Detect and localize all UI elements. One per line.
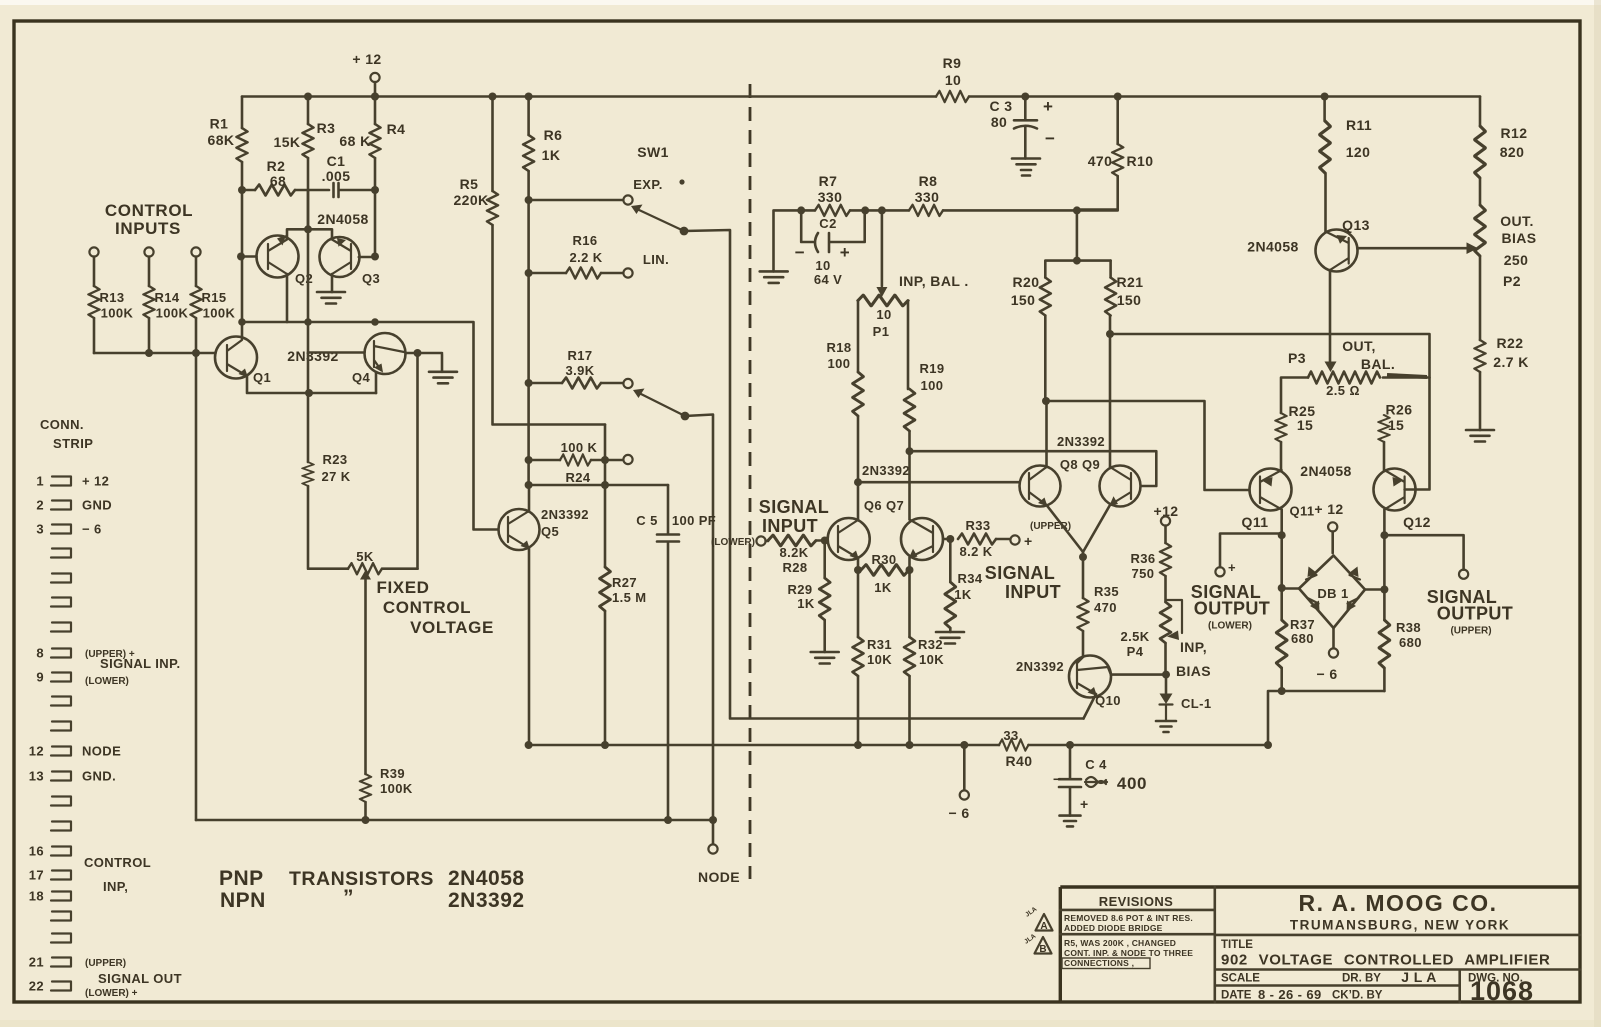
conn strip terminal 10 xyxy=(51,697,71,706)
svg-text:− 6: − 6 xyxy=(1316,666,1337,682)
wire: Q1 Q4 emitter bus xyxy=(247,376,376,393)
svg-text:GND.: GND. xyxy=(82,769,116,784)
svg-text:C1: C1 xyxy=(327,153,346,169)
resistor R19 100 xyxy=(904,389,915,431)
svg-text:680: 680 xyxy=(1291,631,1314,646)
svg-text:R22: R22 xyxy=(1497,335,1524,351)
ground below Q3 xyxy=(331,274,334,292)
svg-text:+ 12: + 12 xyxy=(82,474,109,489)
svg-text:1: 1 xyxy=(36,474,44,489)
diode CL-1 xyxy=(1165,675,1168,693)
svg-text:C 4: C 4 xyxy=(1085,757,1107,772)
resistor R8 330 xyxy=(909,205,943,216)
resistor R18 100 xyxy=(853,372,864,416)
svg-text:27 K: 27 K xyxy=(321,469,350,484)
svg-text:10: 10 xyxy=(876,307,891,322)
svg-text:2: 2 xyxy=(36,498,44,513)
svg-text:DB 1: DB 1 xyxy=(1317,586,1348,601)
svg-text:−: − xyxy=(1053,771,1062,787)
svg-text:8.2 K: 8.2 K xyxy=(959,544,992,559)
resistor R30 1K xyxy=(854,566,862,574)
transistor Q5 xyxy=(499,509,540,550)
svg-text:SW1: SW1 xyxy=(637,144,669,160)
svg-text:2.5K: 2.5K xyxy=(1120,629,1149,644)
svg-text:R37: R37 xyxy=(1290,617,1315,632)
terminal signal output lower xyxy=(1215,567,1224,576)
svg-text:INPUT: INPUT xyxy=(762,516,818,536)
svg-text:TITLE: TITLE xyxy=(1221,939,1253,951)
terminal -6 bridge xyxy=(1332,628,1335,649)
wire: Q6 collector node to Q8 base xyxy=(858,481,1019,484)
resistor R15 100K xyxy=(195,257,198,354)
svg-text:15: 15 xyxy=(1388,417,1404,433)
svg-text:10K: 10K xyxy=(867,652,892,667)
svg-text:− 6: − 6 xyxy=(82,522,102,537)
terminal NODE xyxy=(709,816,717,824)
svg-text:R30: R30 xyxy=(871,552,896,567)
svg-text:+ 12: + 12 xyxy=(352,51,381,67)
svg-text:R36: R36 xyxy=(1130,551,1155,566)
svg-text:BIAS: BIAS xyxy=(1501,230,1536,246)
conn strip terminal 14 xyxy=(51,797,71,806)
wire: R8 node down to R20 R21 xyxy=(1073,206,1081,214)
resistor R13 100K xyxy=(93,257,96,354)
svg-text:R4: R4 xyxy=(387,121,406,137)
svg-text:P1: P1 xyxy=(873,324,890,339)
transistor Q3 xyxy=(320,237,360,277)
svg-text:DATE: DATE xyxy=(1221,990,1252,1002)
svg-text:Q12: Q12 xyxy=(1403,514,1431,530)
resistor R31 10K xyxy=(857,570,860,745)
svg-text:R5, WAS 200K , CHANGED: R5, WAS 200K , CHANGED xyxy=(1064,938,1176,948)
resistor R21 150 xyxy=(1109,261,1112,334)
svg-text:TRUMANSBURG, NEW YORK: TRUMANSBURG, NEW YORK xyxy=(1290,918,1510,933)
resistor R10 470 xyxy=(1114,93,1122,101)
svg-text:470: 470 xyxy=(1094,600,1117,615)
svg-text:STRIP: STRIP xyxy=(53,436,93,451)
svg-text:Q3: Q3 xyxy=(362,271,380,286)
resistor R26 15 xyxy=(1379,415,1390,442)
svg-text:SIGNAL OUT: SIGNAL OUT xyxy=(98,971,182,986)
svg-text:R11: R11 xyxy=(1346,117,1372,133)
transistor Q11 xyxy=(1250,469,1292,511)
svg-text:GND: GND xyxy=(82,498,112,513)
resistor R1 68K xyxy=(241,97,244,191)
conn strip terminal 20 xyxy=(51,934,71,943)
svg-text:1068: 1068 xyxy=(1470,976,1534,1006)
transistor Q2 xyxy=(257,236,299,278)
svg-text:REMOVED 8.6 POT & INT RES.: REMOVED 8.6 POT & INT RES. xyxy=(1064,913,1193,923)
ground left of C2 xyxy=(774,210,802,271)
svg-text:SIGNAL: SIGNAL xyxy=(985,563,1055,583)
title block frame xyxy=(1060,887,1580,1002)
svg-text:C 5: C 5 xyxy=(636,513,657,528)
svg-text:+: + xyxy=(1080,796,1089,812)
svg-text:P2: P2 xyxy=(1503,273,1521,289)
svg-text:3.9K: 3.9K xyxy=(565,363,594,378)
svg-text:SCALE: SCALE xyxy=(1221,973,1260,985)
svg-text:2N4058: 2N4058 xyxy=(1247,239,1298,255)
svg-text:100K: 100K xyxy=(380,781,413,796)
svg-text:EXP.: EXP. xyxy=(633,177,663,192)
svg-text:2N3392: 2N3392 xyxy=(541,507,589,522)
svg-text:INP,: INP, xyxy=(103,879,128,894)
svg-text:R9: R9 xyxy=(943,55,962,71)
svg-text:100 PF: 100 PF xyxy=(672,513,716,528)
svg-text:(UPPER): (UPPER) xyxy=(85,958,126,969)
ground below C4 xyxy=(1060,816,1081,827)
resistor R40 33 xyxy=(999,740,1028,751)
transistor Q8 xyxy=(1020,466,1061,507)
svg-text:−: − xyxy=(1045,129,1056,148)
svg-text:NODE: NODE xyxy=(698,869,740,885)
transistor Q12 xyxy=(1374,469,1416,511)
resistor R9 10 xyxy=(936,91,969,102)
svg-text:100K: 100K xyxy=(101,306,134,321)
svg-text:B: B xyxy=(1039,944,1046,955)
svg-text:R3: R3 xyxy=(317,120,336,136)
svg-text:+: + xyxy=(840,243,851,262)
svg-text:P4: P4 xyxy=(1127,644,1144,659)
wire: SW1 lower arm down to NODE bus xyxy=(685,415,713,821)
transistor Q6 xyxy=(828,518,870,560)
ground below R34 xyxy=(936,632,964,644)
svg-text:R31: R31 xyxy=(867,637,892,652)
svg-text:C 3: C 3 xyxy=(990,98,1013,114)
svg-text:Q6 Q7: Q6 Q7 xyxy=(864,498,904,513)
svg-text:68: 68 xyxy=(270,173,286,189)
svg-text:R2: R2 xyxy=(267,158,286,174)
terminal signal output upper xyxy=(1459,570,1468,579)
svg-text:22: 22 xyxy=(29,979,44,994)
resistor R4 68K xyxy=(371,93,379,101)
resistor R38 680 xyxy=(1383,535,1386,691)
svg-text:8 - 26 - 69: 8 - 26 - 69 xyxy=(1258,987,1322,1002)
svg-text:SIGNAL INP.: SIGNAL INP. xyxy=(100,656,181,671)
resistor R23 27K xyxy=(308,229,348,568)
svg-text:VOLTAGE: VOLTAGE xyxy=(410,618,494,637)
svg-text:400: 400 xyxy=(1117,774,1147,793)
resistor R11 120 xyxy=(1321,93,1329,101)
resistor R36 750 xyxy=(1160,543,1171,576)
svg-text:902 VOLTAGE CONTROLLED AMPL: 902 VOLTAGE CONTROLLED AMPLIFIER xyxy=(1221,952,1550,969)
svg-text:.005: .005 xyxy=(322,168,351,184)
resistor R2 68 xyxy=(238,186,246,194)
svg-text:2N3392: 2N3392 xyxy=(1016,659,1064,674)
ground right of Q4 xyxy=(441,355,444,372)
svg-text:R6: R6 xyxy=(544,127,563,143)
svg-text:R27: R27 xyxy=(612,575,637,590)
svg-text:− 6: − 6 xyxy=(948,805,969,821)
transistor Q9 xyxy=(1100,466,1141,507)
wire: loop from Q1 collector to Q5 base xyxy=(242,322,498,530)
svg-text:CONTROL: CONTROL xyxy=(383,598,471,617)
svg-text:Q8 Q9: Q8 Q9 xyxy=(1060,457,1100,472)
svg-text:(LOWER) +: (LOWER) + xyxy=(85,988,138,999)
wire: Q5 collector row to C5 xyxy=(525,481,533,489)
capacitor C2 10 64V xyxy=(801,210,865,252)
svg-text:10: 10 xyxy=(815,258,830,273)
svg-text:R28: R28 xyxy=(782,560,807,575)
svg-text:330: 330 xyxy=(818,189,843,205)
svg-text:33: 33 xyxy=(1003,728,1018,743)
svg-text:R38: R38 xyxy=(1396,620,1421,635)
svg-text:R1: R1 xyxy=(210,116,229,132)
svg-text:2.5 Ω: 2.5 Ω xyxy=(1326,383,1360,398)
svg-text:FIXED: FIXED xyxy=(376,578,429,597)
conn strip terminal 11 xyxy=(51,722,71,731)
svg-text:DR. BY: DR. BY xyxy=(1342,973,1381,985)
svg-text:R21: R21 xyxy=(1117,274,1144,290)
revision marker triangle B xyxy=(1035,937,1052,954)
svg-text:OUTPUT: OUTPUT xyxy=(1437,604,1513,624)
svg-text:A: A xyxy=(1040,921,1047,932)
svg-text:(UPPER): (UPPER) xyxy=(1450,626,1491,637)
svg-text:R40: R40 xyxy=(1006,753,1033,769)
transistor Q13 xyxy=(1316,230,1358,272)
svg-text:Q2: Q2 xyxy=(295,271,313,286)
svg-text:R. A. MOOG CO.: R. A. MOOG CO. xyxy=(1298,890,1497,916)
svg-text:OUT,: OUT, xyxy=(1342,338,1376,354)
svg-text:INPUTS: INPUTS xyxy=(115,219,181,238)
svg-text:2N4058: 2N4058 xyxy=(448,867,525,890)
svg-text:2.2 K: 2.2 K xyxy=(569,250,602,265)
terminal -6 mid xyxy=(963,745,966,790)
svg-text:INP, BAL .: INP, BAL . xyxy=(899,273,969,289)
svg-text:2N3392: 2N3392 xyxy=(862,463,910,478)
svg-text:CONTROL: CONTROL xyxy=(84,855,151,870)
svg-text:R16: R16 xyxy=(572,233,597,248)
resistor R16 2.2K xyxy=(525,269,533,277)
conn strip terminal 15 xyxy=(51,822,71,831)
svg-text:9: 9 xyxy=(36,670,44,685)
svg-text:CONNECTIONS ,: CONNECTIONS , xyxy=(1064,958,1134,968)
svg-text:CK’D. BY: CK’D. BY xyxy=(1332,990,1383,1002)
svg-text:10: 10 xyxy=(945,72,961,88)
resistor R37 680 xyxy=(1280,535,1283,691)
svg-text:68 K: 68 K xyxy=(339,133,370,149)
svg-text:R26: R26 xyxy=(1386,402,1413,418)
svg-text:−: − xyxy=(795,243,806,262)
svg-text:R19: R19 xyxy=(919,361,944,376)
svg-text:16: 16 xyxy=(29,844,44,859)
resistor R5 220K xyxy=(489,93,497,101)
svg-text:INP,: INP, xyxy=(1180,639,1207,655)
svg-text:Q13: Q13 xyxy=(1342,217,1370,233)
svg-text:Q10: Q10 xyxy=(1095,693,1121,708)
capacitor C5 100PF xyxy=(657,485,679,820)
svg-text:12: 12 xyxy=(29,744,44,759)
svg-text:Q11: Q11 xyxy=(1289,504,1314,519)
svg-text:LIN.: LIN. xyxy=(643,252,669,267)
svg-text:Q1: Q1 xyxy=(253,370,271,385)
svg-text:2N3392: 2N3392 xyxy=(1057,434,1105,449)
diode bridge DB1 xyxy=(1299,556,1365,629)
svg-text:J L A: J L A xyxy=(1401,969,1436,985)
svg-text:OUT.: OUT. xyxy=(1500,213,1534,229)
svg-text:R15: R15 xyxy=(201,290,226,305)
wire: Q4 collector column down to 5K pot xyxy=(414,349,422,357)
resistor R22 2.7K xyxy=(1475,340,1486,372)
svg-text:8: 8 xyxy=(36,646,44,661)
wire: Q8 collector node to Q11 base xyxy=(1046,401,1250,490)
svg-text:100K: 100K xyxy=(203,306,236,321)
svg-text:R32: R32 xyxy=(918,637,943,652)
wire: +12 top power bus xyxy=(242,95,1480,98)
svg-text:10K: 10K xyxy=(919,652,944,667)
resistor R20 150 xyxy=(1045,261,1110,401)
svg-text:64 V: 64 V xyxy=(814,272,842,287)
svg-text:ADDED DIODE BRIDGE: ADDED DIODE BRIDGE xyxy=(1064,923,1163,933)
svg-text:R24: R24 xyxy=(565,470,590,485)
svg-text:”: ” xyxy=(343,886,354,909)
svg-text:R39: R39 xyxy=(380,766,405,781)
svg-text:R5: R5 xyxy=(460,176,479,192)
svg-text:(LOWER): (LOWER) xyxy=(711,537,755,548)
transistor Q7 xyxy=(901,518,943,560)
svg-text:TRANSISTORS: TRANSISTORS xyxy=(289,868,434,890)
svg-text:2N4058: 2N4058 xyxy=(1300,463,1351,479)
wire: Q9 collector node to Q12 base xyxy=(1110,334,1430,490)
svg-text:R10: R10 xyxy=(1127,153,1154,169)
svg-text:BIAS: BIAS xyxy=(1176,663,1211,679)
svg-text:INPUT: INPUT xyxy=(1005,582,1061,602)
svg-text:R13: R13 xyxy=(99,290,124,305)
svg-text:CONN.: CONN. xyxy=(40,417,84,432)
svg-text:R8: R8 xyxy=(919,173,938,189)
svg-text:R33: R33 xyxy=(965,518,990,533)
resistor R12 820 xyxy=(1479,97,1482,127)
svg-text:R34: R34 xyxy=(957,571,982,586)
resistor R7 330 xyxy=(797,206,805,214)
resistor R28 8.2K xyxy=(766,540,768,543)
svg-text:+ 12: + 12 xyxy=(1314,501,1343,517)
svg-text:+: + xyxy=(1043,97,1054,116)
resistor R25 15 xyxy=(1276,413,1287,442)
resistor R24 100K xyxy=(525,456,533,464)
wire: bridge left to Q11 collector xyxy=(1282,587,1299,590)
wire: bridge right to Q12 collector xyxy=(1365,588,1384,591)
svg-text:R12: R12 xyxy=(1501,125,1528,141)
resistor R35 470 xyxy=(1078,598,1089,631)
potentiometer 5K fixed control voltage xyxy=(348,563,382,574)
svg-text:1K: 1K xyxy=(954,587,972,602)
svg-text:Q5: Q5 xyxy=(541,524,559,539)
svg-text:NPN: NPN xyxy=(220,889,266,912)
svg-text:220K: 220K xyxy=(453,192,488,208)
resistor R14 100K xyxy=(148,257,151,354)
conn strip terminal 4 xyxy=(51,549,71,558)
svg-text:100 K: 100 K xyxy=(561,440,598,455)
wire: Q2 Q3 common emitter bar xyxy=(287,190,332,239)
svg-text:68K: 68K xyxy=(208,132,235,148)
svg-text:250: 250 xyxy=(1504,252,1529,268)
revision marker triangle A xyxy=(1036,914,1053,931)
svg-text:R23: R23 xyxy=(322,452,347,467)
svg-text:680: 680 xyxy=(1399,635,1422,650)
wire: Q8 Q9 emitter junction to R35 xyxy=(1082,552,1085,598)
resistor R32 10K xyxy=(908,570,911,745)
switch SW1 upper arm xyxy=(631,205,643,215)
resistor R33 8.2K xyxy=(946,535,954,543)
svg-text:REVISIONS: REVISIONS xyxy=(1099,894,1173,909)
ground below C3 xyxy=(1012,159,1040,171)
svg-text:3: 3 xyxy=(36,522,44,537)
svg-text:CONT. INP. & NODE TO THREE: CONT. INP. & NODE TO THREE xyxy=(1064,948,1193,958)
svg-text:750: 750 xyxy=(1132,566,1155,581)
transistor Q4 xyxy=(365,333,406,374)
svg-text:R14: R14 xyxy=(154,290,179,305)
capacitor C4 400 xyxy=(1059,745,1081,816)
svg-text:R20: R20 xyxy=(1013,274,1040,290)
resistor R27 1.5M xyxy=(604,425,607,746)
wire: lower left bus xyxy=(196,819,713,822)
svg-text:2.7 K: 2.7 K xyxy=(1493,354,1528,370)
ground below R22 xyxy=(1466,430,1494,442)
svg-text:17: 17 xyxy=(29,868,44,883)
resistor R17 3.9K xyxy=(525,379,533,387)
resistor R39 100K xyxy=(360,774,371,802)
resistor R3 15K xyxy=(304,93,312,101)
svg-text:CONTROL: CONTROL xyxy=(105,201,193,220)
resistor R29 1K xyxy=(821,537,829,545)
svg-text:15: 15 xyxy=(1297,417,1313,433)
svg-text:(LOWER): (LOWER) xyxy=(85,676,129,687)
svg-text:BAL.: BAL. xyxy=(1361,356,1395,372)
svg-text:100K: 100K xyxy=(156,306,189,321)
svg-text:21: 21 xyxy=(29,955,44,970)
ground below R29 xyxy=(811,652,839,664)
ground below CL-1 xyxy=(1156,721,1176,732)
svg-text:5K: 5K xyxy=(356,549,374,564)
conn strip terminal 7 xyxy=(51,623,71,632)
wire: Q7 collector node to Q9 base xyxy=(910,451,1157,486)
svg-text:150: 150 xyxy=(1011,292,1036,308)
svg-text:PNP: PNP xyxy=(219,867,264,890)
wire: SW1 upper arm to Q10 emitter line xyxy=(684,230,1084,719)
wire: lower bus riser to output stage xyxy=(1264,741,1272,749)
svg-text:+: + xyxy=(1024,533,1033,549)
transistor Q10 xyxy=(1069,656,1111,698)
potentiometer P4 2.5K INP BIAS xyxy=(1160,602,1171,643)
control input terminals xyxy=(89,247,98,256)
svg-text:Q11: Q11 xyxy=(1242,514,1269,530)
svg-text:100: 100 xyxy=(828,356,851,371)
svg-text:R18: R18 xyxy=(826,340,851,355)
svg-text:80: 80 xyxy=(991,114,1007,130)
svg-text:P3: P3 xyxy=(1288,350,1306,366)
switch SW1 lower arm xyxy=(633,389,645,399)
svg-text:SIGNAL: SIGNAL xyxy=(759,497,829,517)
svg-text:1.5 M: 1.5 M xyxy=(612,590,647,605)
svg-text:1K: 1K xyxy=(797,596,815,611)
conn strip terminal 6 xyxy=(51,598,71,607)
dashed separator line xyxy=(749,84,752,879)
wire: drop from summing bus to lower left bus xyxy=(195,353,198,820)
conn strip terminal 5 xyxy=(51,574,71,583)
svg-text:1K: 1K xyxy=(874,580,892,595)
svg-text:OUTPUT: OUTPUT xyxy=(1194,599,1270,619)
capacitor C3 80 xyxy=(1021,93,1029,101)
svg-text:2N4058: 2N4058 xyxy=(317,211,368,227)
resistor R6 1K xyxy=(525,93,533,101)
svg-text:470: 470 xyxy=(1088,153,1113,169)
svg-text:1K: 1K xyxy=(542,147,561,163)
svg-text:8.2K: 8.2K xyxy=(779,545,808,560)
transistor Q1 xyxy=(215,337,257,379)
svg-text:15K: 15K xyxy=(274,134,301,150)
capacitor C1 .005 xyxy=(334,183,376,197)
